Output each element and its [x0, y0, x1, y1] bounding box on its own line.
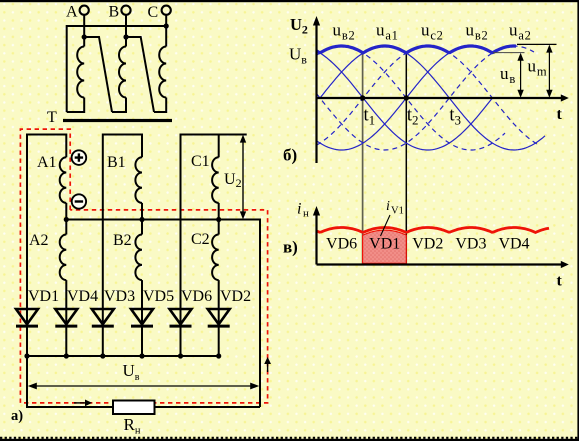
diode VD1 [16, 309, 38, 326]
page border bottom dotted [0, 438, 579, 441]
svg-text:uв: uв [500, 64, 516, 86]
axis junction dot t1 [360, 95, 365, 100]
current direction arrow on bottom red wire [74, 400, 92, 407]
svg-text:VD3: VD3 [455, 236, 486, 253]
svg-text:t1: t1 [364, 106, 376, 128]
primary winding coil phase C [159, 47, 166, 98]
junction dot cathode bus at VD6 [178, 353, 183, 358]
secondary coil C2 [212, 235, 219, 281]
svg-text:T: T [47, 109, 57, 126]
svg-text:B2: B2 [113, 232, 132, 249]
svg-text:VD5: VD5 [143, 288, 174, 305]
svg-text:uc2: uc2 [421, 21, 444, 43]
svg-text:VD2: VD2 [220, 288, 251, 305]
junction dot bus at phase C [216, 217, 221, 222]
axis label in [297, 201, 309, 220]
junction dot cathode bus at VD3 [100, 353, 105, 358]
page border right [577, 0, 579, 441]
svg-text:Rн: Rн [124, 415, 141, 437]
iv1 pointer line [381, 215, 391, 236]
svg-text:A2: A2 [29, 232, 49, 249]
node t1 vertical timing line [362, 53, 364, 265]
wire: column VD1 / winding A1 frame [27, 135, 66, 357]
chart v current axis [313, 206, 320, 265]
secondary coil A1 [60, 157, 67, 203]
primary winding coil phase B [119, 47, 126, 98]
svg-text:t: t [557, 273, 563, 290]
chart b dashed sine uc2 [317, 46, 541, 146]
svg-text:C2: C2 [191, 231, 210, 248]
wire: C column top to coil C1 [218, 135, 220, 158]
wire: zig link from node A to bottom of phase B [84, 37, 112, 112]
svg-text:Uв: Uв [123, 361, 140, 383]
secondary coil B1 [135, 157, 142, 203]
svg-text:VD4: VD4 [498, 236, 529, 253]
junction dot node A [82, 34, 87, 39]
svg-text:uв2: uв2 [466, 21, 489, 43]
junction dot cathode bus at VD5 [139, 353, 144, 358]
wire: lead from terminal C [165, 15, 167, 47]
transformer core bar [63, 119, 172, 122]
svg-text:а): а) [11, 408, 23, 424]
svg-text:i: i [386, 199, 390, 214]
svg-text:B1: B1 [107, 154, 126, 171]
svg-text:A1: A1 [37, 154, 57, 171]
chart b thin solid sine ua1 [320, 46, 545, 150]
svg-text:i: i [297, 201, 301, 218]
svg-text:ua1: ua1 [376, 21, 399, 43]
svg-text:uв2: uв2 [333, 21, 356, 43]
wire: B column from coil B2 to diode VD5 [141, 280, 143, 356]
junction dot cathode bus at VD1 [24, 353, 29, 358]
current direction arrow on right red wire [264, 357, 271, 372]
primary winding coil phase A [77, 47, 84, 98]
svg-text:VD2: VD2 [412, 236, 443, 253]
svg-text:VD1: VD1 [369, 236, 400, 253]
chart b thin solid sine uc1 [317, 51, 493, 150]
junction dot node B [123, 34, 128, 39]
wire: primary left leg and top bar [67, 26, 167, 112]
wire: B column between coils B1 and B2 [141, 203, 143, 235]
wire: cathode bus to load bottom rail [27, 356, 260, 407]
diode VD4 [55, 309, 77, 326]
secondary coil B2 [135, 235, 142, 281]
chart b dashed sine ub2 [317, 46, 506, 150]
terminal circle B [121, 6, 130, 15]
svg-text:Uв: Uв [289, 45, 307, 67]
chart b voltage axis [313, 16, 320, 163]
diode VD3 [92, 309, 114, 326]
wire: coil B bottom link [112, 98, 126, 113]
svg-text:в): в) [283, 238, 298, 257]
svg-text:V1: V1 [391, 206, 404, 217]
svg-text:VD3: VD3 [104, 288, 135, 305]
svg-text:A: A [66, 4, 78, 21]
svg-text:C1: C1 [191, 153, 210, 170]
svg-text:B: B [109, 4, 120, 21]
terminal circle C [162, 6, 171, 15]
junction dot bus at phase A [64, 217, 69, 222]
resistor Rn load [113, 401, 155, 415]
diode VD2 [208, 309, 230, 326]
wire: A column between coils A1 and A2 [65, 203, 67, 235]
wire: cathode bus collecting diode outputs [27, 355, 219, 357]
node t2 vertical timing line [405, 53, 407, 265]
wire: column VD6 / winding C1 frame with U2 stub [181, 135, 247, 357]
svg-text:VD1: VD1 [28, 288, 59, 305]
wire: lead from terminal A [83, 15, 85, 47]
um reference line [517, 43, 557, 45]
diode VD5 [131, 309, 153, 326]
wire: C column between coils C1 and C2 [218, 203, 220, 235]
wire: coil C bottom link [154, 98, 166, 113]
polarity symbol minus [72, 194, 86, 208]
um measuring double arrow [546, 45, 552, 98]
value label iv1 [386, 199, 404, 217]
svg-text:U2: U2 [290, 15, 308, 37]
chart b time axis [317, 94, 569, 101]
chart b bold rectified envelope [317, 46, 517, 53]
page border top [0, 0, 579, 2]
svg-text:ua2: ua2 [509, 21, 532, 43]
polarity symbol plus [72, 150, 87, 165]
junction dot bus at phase B [139, 217, 144, 222]
svg-text:t3: t3 [449, 106, 461, 128]
secondary coil A2 [60, 235, 67, 281]
Ub measuring double arrow [28, 383, 259, 390]
junction dot cathode bus at VD2 [216, 353, 221, 358]
ub reference line [493, 52, 525, 54]
chart b thin solid sine ub1 [317, 46, 493, 150]
red dashed current flow loop around rectifier [20, 129, 267, 403]
terminal circle A [80, 6, 89, 15]
junction dot node C on top bar [164, 23, 169, 28]
wire: C column from coil C2 to diode VD2 [218, 280, 220, 356]
svg-text:U2: U2 [224, 171, 242, 190]
svg-text:н: н [303, 208, 309, 220]
svg-text:VD6: VD6 [326, 236, 357, 253]
svg-text:t2: t2 [407, 106, 419, 128]
rectified load current curve in [317, 228, 550, 233]
U2 measuring double arrow [240, 135, 246, 220]
chart b dashed sine ua2 [317, 46, 535, 150]
wire: lead from terminal B [125, 15, 127, 47]
svg-text:C: C [148, 4, 159, 21]
wire: common neutral bus and right return leg [66, 220, 260, 408]
svg-text:б): б) [283, 146, 297, 165]
secondary coil C1 [212, 157, 219, 203]
wire: coil A bottom to left leg [67, 98, 85, 113]
wire: column VD3 / winding B1 frame [103, 135, 142, 357]
svg-text:t: t [557, 106, 563, 123]
wire: zig link from node B to bottom of phase C [126, 37, 154, 112]
chart v time axis [317, 261, 569, 268]
diode VD6 [170, 309, 192, 326]
wire: A column from coil A2 to diode VD4 [65, 280, 67, 356]
svg-text:VD4: VD4 [67, 288, 98, 305]
svg-text:VD6: VD6 [181, 288, 212, 305]
svg-text:um: um [528, 57, 548, 79]
junction dot cathode bus at VD4 [64, 353, 69, 358]
axis junction dot t2 [404, 95, 409, 100]
ub measuring double arrow [517, 53, 523, 98]
